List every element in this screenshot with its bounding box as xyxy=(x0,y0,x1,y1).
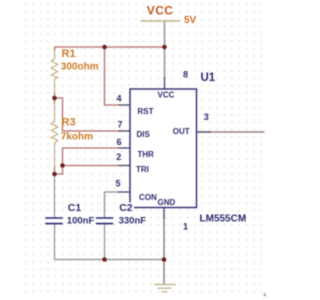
wire: C1 bottom to ground rail xyxy=(54,224,56,260)
junction at RST drop on top rail xyxy=(102,45,107,50)
svg-text:TRI: TRI xyxy=(136,165,149,174)
svg-text:C1: C1 xyxy=(68,202,82,214)
VCC power symbol xyxy=(141,20,181,22)
wire: RST drop from top rail xyxy=(105,47,131,105)
wire: top rail from R1 to VCC xyxy=(55,46,166,48)
wire: node A to R3 top xyxy=(54,98,56,104)
svg-text:U1: U1 xyxy=(201,72,216,84)
wire: THR pin 6 to node B column xyxy=(55,148,131,174)
junction at C2 on ground rail xyxy=(102,257,107,262)
wire: node A to DIS pin 7 xyxy=(55,98,131,131)
capacitor C1 xyxy=(45,218,63,224)
U1 pin 2 stub xyxy=(118,165,130,167)
wire: OUT pin 3 xyxy=(197,131,265,133)
wire: TRI pin 2 stub xyxy=(63,165,131,167)
capacitor C2 label xyxy=(118,203,134,213)
U1 pin 6 stub xyxy=(118,147,130,149)
svg-text:7kohm: 7kohm xyxy=(61,132,93,143)
svg-text:330nF: 330nF xyxy=(119,216,147,227)
svg-text:7: 7 xyxy=(118,119,123,129)
wire: CON pin 5 to C2 xyxy=(105,192,131,218)
wire: GND pin 1 down to ground xyxy=(163,208,165,285)
grid background xyxy=(24,1,262,294)
svg-text:2: 2 xyxy=(116,152,121,162)
wire: R1 top lead xyxy=(54,47,56,51)
svg-text:1: 1 xyxy=(183,221,188,231)
svg-text:CON: CON xyxy=(139,193,157,202)
U1 pin 1 stub xyxy=(163,208,165,220)
svg-text:6: 6 xyxy=(117,137,122,147)
svg-text:R3: R3 xyxy=(62,116,76,128)
svg-text:5V: 5V xyxy=(184,15,197,26)
svg-text:4: 4 xyxy=(117,93,122,103)
wire: VCC symbol stem to pin 8 xyxy=(164,21,166,89)
svg-text:VCC: VCC xyxy=(158,91,175,100)
wire: bottom ground rail xyxy=(55,259,165,261)
svg-text:3: 3 xyxy=(204,112,209,122)
wire: R1 bottom to node A xyxy=(54,79,56,93)
resistor R1 xyxy=(51,59,58,79)
svg-text:OUT: OUT xyxy=(173,127,190,136)
svg-text:DIS: DIS xyxy=(137,130,151,139)
svg-text:5: 5 xyxy=(116,178,121,188)
resistor R3 xyxy=(51,121,58,143)
svg-text:LM555CM: LM555CM xyxy=(200,214,247,225)
U1 pin 7 stub xyxy=(118,130,130,132)
U1 pin 5 stub xyxy=(118,191,130,193)
op-amp U1 body (LM555CM timer IC) xyxy=(130,89,197,208)
svg-text:8: 8 xyxy=(183,69,188,79)
svg-text:THR: THR xyxy=(138,150,155,159)
junction node B (R3/C1) xyxy=(52,172,57,177)
U1 pin 8 stub xyxy=(164,77,166,89)
wire: C2 bottom to ground rail xyxy=(104,224,106,260)
junction at VCC on top rail xyxy=(162,45,167,50)
svg-text:VCC: VCC xyxy=(147,3,174,17)
wire: R3 bottom to node B xyxy=(54,143,56,167)
junction at ground stem xyxy=(162,257,167,262)
capacitor C2 xyxy=(96,218,113,224)
U1 pin 4 stub xyxy=(118,104,130,106)
svg-text:C2: C2 xyxy=(119,202,133,214)
junction node A (R1/R3/DIS) xyxy=(52,96,57,101)
ground xyxy=(154,285,176,292)
junction at TRI on THR column xyxy=(60,163,65,168)
svg-text:300ohm: 300ohm xyxy=(61,62,99,73)
cursor artifact bottom right xyxy=(263,292,267,297)
svg-text:100nF: 100nF xyxy=(67,215,95,226)
wire: node B down to C1 xyxy=(54,174,56,218)
svg-text:GND: GND xyxy=(158,198,176,207)
U1 pin 3 stub xyxy=(197,131,212,133)
svg-text:RST: RST xyxy=(138,107,154,116)
svg-text:R1: R1 xyxy=(62,48,76,60)
